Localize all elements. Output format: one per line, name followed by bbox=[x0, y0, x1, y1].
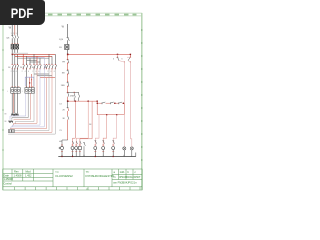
fuse block FU1 bbox=[11, 44, 19, 49]
coil lower terminal marks bbox=[61, 150, 114, 152]
wire blue loop over FR2 bbox=[25, 77, 34, 86]
sheet frame left border bbox=[2, 13, 3, 190]
overload relay FR2 bbox=[25, 88, 35, 94]
wire branch mid2 drop bbox=[80, 101, 92, 146]
contactor 2KM main contacts bbox=[23, 64, 31, 70]
svg-text:FLUOVENS2: FLUOVENS2 bbox=[56, 174, 74, 178]
coil 1KT bbox=[94, 147, 97, 150]
svg-text:6: 6 bbox=[54, 71, 55, 73]
svg-text:6: 6 bbox=[38, 71, 39, 73]
wire lamps to rail bbox=[124, 150, 132, 157]
motor M1 windings bbox=[11, 114, 18, 116]
svg-text:2K: 2K bbox=[20, 67, 23, 69]
label 2KM bbox=[20, 67, 23, 69]
sheet frame top border bbox=[2, 13, 142, 16]
small branch x84 bbox=[83, 143, 85, 157]
node rail B right bbox=[97, 101, 98, 102]
bus B dark bbox=[15, 55, 52, 57]
contacts on pair bbox=[44, 65, 47, 69]
svg-text:1K: 1K bbox=[8, 67, 11, 69]
pair contact dots bbox=[44, 64, 47, 69]
svg-text:am FN2B04JPG21n: am FN2B04JPG21n bbox=[113, 181, 137, 185]
wire group3 drop bbox=[34, 54, 40, 64]
label interlocks bbox=[59, 103, 65, 143]
lamp HL2 bbox=[130, 147, 133, 150]
wire chain drop 2 bbox=[103, 115, 106, 147]
FR2 terminal marks bbox=[26, 86, 34, 88]
node chain corners bbox=[97, 103, 125, 116]
coil 1KM bbox=[60, 146, 63, 149]
wire group4 drop bbox=[49, 54, 55, 64]
contacts above KT coils bbox=[94, 141, 114, 144]
label W bbox=[9, 26, 12, 30]
jumper red bbox=[40, 77, 55, 79]
svg-text:FU: FU bbox=[59, 47, 62, 49]
label 1SB bbox=[62, 73, 65, 75]
wire branch seal drop bbox=[73, 101, 76, 146]
svg-text:2: 2 bbox=[47, 71, 48, 73]
label 1KM bbox=[8, 67, 11, 69]
wire coil1 to rail bbox=[61, 150, 63, 157]
svg-text:4: 4 bbox=[50, 71, 51, 73]
svg-text:h: h bbox=[122, 58, 123, 60]
label 4KM bbox=[45, 67, 48, 69]
svg-text:Rev: Rev bbox=[14, 169, 19, 173]
PDF badge bbox=[0, 0, 45, 25]
coil 2KT bbox=[102, 147, 105, 150]
node rail N dots bbox=[61, 156, 113, 157]
svg-text:+: + bbox=[22, 91, 24, 93]
svg-text:1.4508: 1.4508 bbox=[14, 173, 22, 177]
label 2SB start bbox=[70, 95, 75, 97]
wire group1 drop bbox=[12, 54, 17, 64]
svg-text:Date: Date bbox=[3, 173, 9, 177]
svg-text:W: W bbox=[62, 26, 65, 29]
contact FR1 NC bbox=[67, 54, 69, 70]
svg-text:13: 13 bbox=[59, 103, 62, 105]
wire numbers 246 bbox=[11, 71, 55, 73]
lamp HL1 bbox=[123, 147, 126, 150]
control rail B red bbox=[68, 100, 98, 102]
contactor 4KM main contacts bbox=[49, 64, 57, 70]
svg-text:c: c bbox=[135, 171, 137, 174]
wire group4 bends bbox=[8, 69, 55, 135]
wire lamp drop 1 bbox=[123, 115, 125, 147]
cluster terminal dots bbox=[117, 57, 131, 63]
svg-text:4: 4 bbox=[13, 71, 14, 73]
start button with seal-in branch bbox=[67, 92, 80, 101]
disconnect control QS aux bbox=[67, 38, 70, 41]
svg-text:3: 3 bbox=[13, 33, 14, 35]
wire FR1 to motor1 bbox=[12, 93, 17, 113]
wire branch to coil 1KM bbox=[62, 101, 69, 146]
wire fuse to rail bbox=[67, 50, 69, 55]
wire to control fuse bbox=[67, 40, 69, 44]
svg-text:+: + bbox=[7, 91, 9, 93]
svg-text:2K: 2K bbox=[62, 110, 65, 112]
svg-text:21: 21 bbox=[59, 130, 62, 132]
node rail A left bbox=[67, 54, 69, 56]
overload relay FR1 bbox=[11, 88, 21, 94]
label 1KT bbox=[89, 124, 92, 126]
contactor 1KM main contacts bbox=[12, 64, 19, 70]
FU1 terminal marks bbox=[11, 43, 18, 45]
neutral rail ticks bbox=[62, 155, 124, 157]
FR1 terminal marks bbox=[12, 86, 20, 88]
contact before coil1 bbox=[59, 147, 61, 149]
fuse 1FU bbox=[65, 45, 69, 50]
gray bus band bbox=[12, 52, 28, 54]
svg-text:1QS: 1QS bbox=[59, 39, 64, 41]
node rail A mid bbox=[117, 54, 118, 55]
label 1FR bbox=[7, 91, 9, 93]
svg-text:2: 2 bbox=[11, 71, 12, 73]
svg-text:1of1: 1of1 bbox=[120, 170, 126, 174]
node start branch bbox=[67, 92, 75, 93]
rail end stub bbox=[135, 153, 137, 157]
wire control feed bbox=[67, 24, 69, 37]
title block text bbox=[3, 169, 140, 185]
wire FR1 red core bbox=[13, 93, 15, 113]
svg-text:1K: 1K bbox=[89, 124, 92, 126]
contacts above 2KM coils bbox=[73, 141, 82, 144]
svg-text:FR: FR bbox=[62, 61, 65, 63]
wire chain drop 1 bbox=[95, 115, 99, 147]
limit switch chain bbox=[97, 101, 124, 115]
node rail B seal bbox=[75, 101, 76, 102]
wire lamp2 feed bbox=[130, 139, 131, 147]
node rail B mid bbox=[88, 101, 89, 102]
label 1W bbox=[62, 26, 65, 29]
sheet frame right border bbox=[141, 13, 142, 190]
svg-text:6: 6 bbox=[16, 71, 17, 73]
disconnect QS bbox=[11, 35, 18, 38]
svg-text:1.452: 1.452 bbox=[25, 173, 32, 177]
motor M2 windings bbox=[9, 121, 13, 123]
svg-text:QS: QS bbox=[6, 37, 10, 39]
wire FU to bus bbox=[12, 49, 17, 58]
label 1FU bbox=[59, 47, 62, 49]
label F red bbox=[31, 79, 33, 81]
label FR bbox=[62, 61, 65, 63]
label M1 bbox=[5, 114, 7, 116]
chain contact 2 bbox=[110, 102, 114, 104]
wire numbers 135 bbox=[11, 33, 17, 35]
node bus A bbox=[12, 54, 13, 55]
label 2FR bbox=[22, 91, 24, 93]
svg-text:s1: s1 bbox=[86, 189, 89, 191]
bus C gray bbox=[17, 57, 49, 59]
svg-text:h: h bbox=[113, 58, 114, 60]
label QS bbox=[6, 37, 10, 39]
wire pair blue-red bbox=[10, 60, 47, 129]
title block bbox=[3, 169, 142, 190]
control rail A red bbox=[68, 54, 131, 57]
svg-text:M: M bbox=[5, 121, 7, 123]
label interlock cluster bbox=[113, 58, 123, 60]
svg-text:Mod: Mod bbox=[26, 169, 32, 173]
svg-text:1SB: 1SB bbox=[61, 85, 66, 87]
svg-text:a: a bbox=[114, 171, 116, 174]
svg-text:SB: SB bbox=[62, 73, 65, 75]
svg-text:Doc: Doc bbox=[56, 172, 60, 174]
title strip text bbox=[86, 189, 89, 191]
coil 3KM bbox=[75, 147, 78, 150]
wire group1 to FR1 bbox=[12, 69, 17, 88]
wire group3 bends bbox=[12, 69, 40, 127]
svg-text:1: 1 bbox=[11, 33, 12, 35]
wire group2 to FR2 bbox=[26, 69, 28, 88]
jumper group3-group4 dark bbox=[34, 73, 49, 75]
wire pink drop 2 bbox=[129, 62, 131, 139]
bus D blue bbox=[27, 57, 45, 60]
interlock contact cluster top right bbox=[117, 54, 132, 62]
neutral rail N bbox=[58, 156, 136, 158]
svg-text:1.45008: 1.45008 bbox=[3, 177, 13, 181]
wire red pair to FR2 bbox=[30, 74, 32, 88]
bus A red bbox=[12, 53, 55, 55]
wire FR2 to motor2 bbox=[10, 93, 31, 119]
wire pink drop 1 bbox=[123, 62, 125, 103]
svg-text:M: M bbox=[5, 114, 7, 116]
svg-text:IPSUMDOLORSIT: IPSUMDOLORSIT bbox=[119, 175, 141, 179]
wire phase L2 bbox=[14, 24, 16, 35]
node FR2 feed bbox=[29, 82, 30, 83]
svg-text:m: m bbox=[114, 176, 116, 179]
contact stop 2SB bbox=[67, 82, 69, 92]
svg-text:2SB: 2SB bbox=[70, 95, 75, 97]
coil 2KM bbox=[71, 147, 74, 150]
terminal blocks XT bbox=[8, 130, 14, 133]
contact terminal dots power bbox=[12, 64, 56, 69]
svg-text:6: 6 bbox=[28, 71, 29, 73]
label M2 bbox=[5, 121, 7, 123]
coil 3KT bbox=[112, 147, 115, 150]
svg-text:2: 2 bbox=[22, 71, 23, 73]
chain contact 3 bbox=[119, 102, 123, 104]
wire phase L1 bbox=[11, 24, 13, 35]
wire coils KT to rail bbox=[95, 150, 113, 157]
contact terminal dots bbox=[67, 59, 68, 87]
node rail B left bbox=[67, 100, 69, 102]
svg-text:4: 4 bbox=[35, 71, 36, 73]
node rail A right bbox=[130, 54, 131, 55]
svg-text:3K: 3K bbox=[62, 118, 65, 120]
chain contact 1 bbox=[102, 102, 106, 104]
jumper group3-group4 dark2 bbox=[37, 75, 52, 77]
coil terminal marks red bbox=[61, 144, 114, 146]
bus E step bbox=[27, 60, 40, 62]
svg-text:DYNSHKODALE3YRL: DYNSHKODALE3YRL bbox=[86, 174, 115, 178]
label 3KM bbox=[32, 67, 35, 69]
svg-text:Title: Title bbox=[86, 171, 91, 174]
wire phase L3 bbox=[16, 24, 18, 35]
wire branch mid drop bbox=[76, 101, 88, 146]
label 1QS bbox=[59, 39, 64, 41]
wire group2 drop bbox=[23, 54, 30, 64]
wire chain drop 3 bbox=[113, 115, 116, 147]
svg-text:4: 4 bbox=[25, 71, 26, 73]
contactor 3KM main contacts bbox=[34, 64, 41, 70]
label 2SB bbox=[61, 85, 66, 87]
wire QS to FU bbox=[12, 38, 17, 44]
coil 4KM timer bbox=[79, 146, 82, 149]
svg-text:b: b bbox=[128, 170, 130, 174]
svg-text:F: F bbox=[31, 79, 33, 81]
svg-text:2: 2 bbox=[32, 71, 33, 73]
svg-text:5: 5 bbox=[16, 33, 17, 35]
contact stop 1SB bbox=[67, 70, 69, 82]
wire coils234 to rail bbox=[73, 150, 80, 157]
svg-text:Control: Control bbox=[3, 182, 12, 186]
